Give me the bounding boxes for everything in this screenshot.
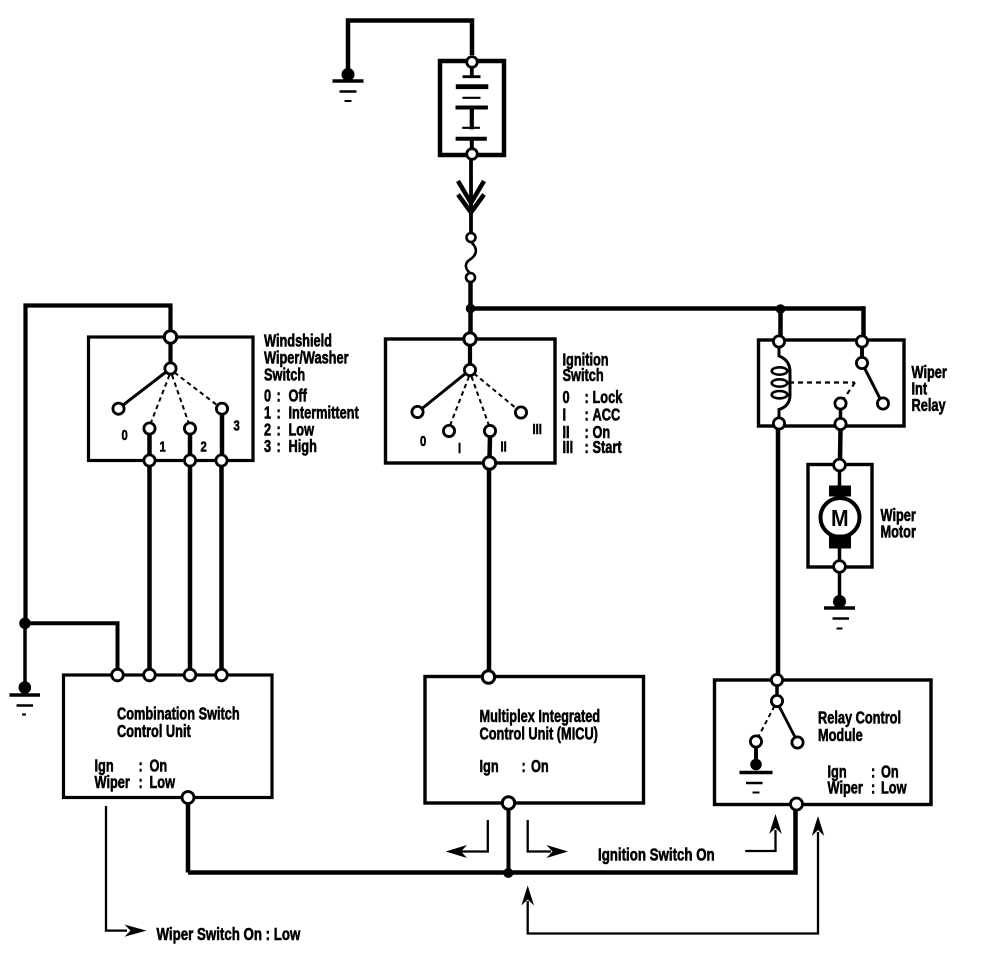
node relay branch junction (776, 304, 786, 314)
U3 switch pole contact (771, 695, 782, 706)
label M (831, 505, 849, 531)
arrow wiper switch on low (106, 806, 147, 937)
ground G2 (combination switch ground) (10, 681, 41, 714)
label SW2 position I (458, 439, 461, 456)
label relay control module (818, 709, 901, 728)
SW2 contact III (515, 407, 526, 418)
svg-text:M: M (831, 505, 849, 531)
svg-text:Relay: Relay (912, 396, 946, 415)
SW1 contact 1 (144, 423, 155, 434)
svg-text::: : (871, 779, 875, 798)
svg-text:Switch: Switch (563, 366, 604, 385)
U3 dashed throw (759, 706, 775, 737)
svg-text:Low: Low (150, 773, 176, 792)
pin SW1 bottom 3 (216, 455, 227, 466)
wire contact2 to pin (188, 434, 193, 455)
dashed actuator link (789, 381, 855, 383)
pin U2 bottom (502, 797, 514, 809)
wire relay coil to relay control module (776, 429, 781, 675)
svg-text:II: II (501, 438, 507, 455)
SW2 contact I (443, 425, 454, 436)
svg-text::: : (585, 438, 589, 457)
pin K1 bottom left (773, 418, 784, 429)
label multiplex integrated control unit (480, 707, 601, 726)
wire NC contact to ground (754, 747, 758, 761)
combination switch control unit U1 box (64, 675, 273, 798)
svg-text::: : (139, 773, 143, 792)
wire NC contact to pin (839, 409, 843, 419)
svg-text:On: On (531, 757, 549, 776)
ground G4 (module internal ground) (740, 759, 773, 793)
multiplex integrated control unit U2 box (425, 677, 644, 804)
pin U3 bottom (791, 798, 803, 810)
connector squiggle (466, 243, 476, 274)
SW1 wiper arm to position 0 (123, 372, 167, 406)
ignition switch SW2 box (386, 339, 556, 463)
U3 state Ign On (828, 763, 847, 782)
battery bottom terminal pin (467, 149, 478, 160)
motor brush bottom (829, 535, 851, 549)
SW2 contact II (484, 425, 495, 436)
svg-text:Ign: Ign (480, 757, 499, 776)
wire left feed to wiper switch (26, 306, 171, 624)
pin U1 top 1 (112, 669, 124, 681)
wiper int relay K1 box (759, 340, 905, 426)
SW1 contact 0 (113, 403, 124, 414)
wire junction to ground (23, 623, 27, 682)
svg-text:III: III (533, 420, 542, 437)
svg-text:3: 3 (264, 437, 271, 456)
wire SW1-2 to combination unit (188, 466, 193, 669)
wire K1 pin to switch common (860, 347, 864, 358)
SW1 contact 2 (184, 423, 195, 434)
pin U1 top 3 (184, 669, 196, 681)
svg-text:Motor: Motor (881, 523, 916, 542)
pin SW1 bottom 2 (184, 455, 195, 466)
wire U2 to bottom bus (507, 809, 511, 873)
SW2 dashed throw to II (472, 377, 490, 426)
label SW2 position 0 (420, 432, 426, 449)
wire SW1-3 to combination unit (219, 466, 224, 669)
ground G3 (wiper motor ground) (824, 595, 855, 629)
U3 switch NC contact (750, 736, 761, 747)
pin U2 top (482, 671, 494, 683)
SW2 wiper arm to position 0 (422, 374, 466, 410)
U1 state Wiper Low (95, 773, 130, 792)
relay coil K1 (772, 347, 790, 418)
svg-text:Wiper Switch On : Low: Wiper Switch On : Low (157, 925, 302, 944)
wiper/washer switch SW1 box (89, 337, 254, 461)
label ignition switch on (598, 846, 715, 865)
wire bus to relay coil (778, 309, 783, 338)
wire SW2 pole (468, 345, 472, 365)
svg-text:Wiper: Wiper (95, 773, 130, 792)
pin K1 bottom mid (835, 418, 846, 429)
label SW1 position 0 (122, 426, 128, 443)
wire contact1 to pin (147, 434, 152, 455)
U2 state Ign On (480, 757, 499, 776)
SW1 pole contact (165, 363, 176, 374)
svg-text:I: I (458, 439, 461, 456)
label SW1 position 1 (160, 438, 166, 455)
pin SW1 top (164, 331, 176, 343)
wiper motor M1 box (808, 465, 872, 568)
pin K1 top right (856, 336, 867, 347)
svg-text:2: 2 (201, 438, 207, 455)
wire connector to main bus (468, 283, 473, 309)
arrow loop under bottom bus (521, 816, 824, 934)
pin K1 top left (773, 336, 784, 347)
pin U1 top 4 (216, 669, 228, 681)
arrow into relay control module (745, 814, 782, 851)
K1 switch arm (865, 368, 881, 400)
wire pin to brush (838, 471, 842, 487)
arrow current flow left (446, 820, 488, 858)
battery BAT1 (440, 61, 504, 155)
svg-text:Control Unit: Control Unit (117, 722, 191, 741)
SW1 dashed throw to 2 (172, 375, 189, 423)
svg-text:Wiper: Wiper (828, 779, 863, 798)
pin U1 top 2 (144, 669, 156, 681)
wire U1 to bottom bus (186, 804, 191, 873)
SW2 contact 0 (412, 406, 423, 417)
label wiper switch on low (157, 925, 302, 944)
svg-text:1: 1 (160, 438, 166, 455)
K1 switch common contact (856, 357, 867, 368)
wire battery to connector (469, 160, 473, 233)
wire main power bus (471, 306, 865, 311)
K1 switch NC contact (835, 398, 846, 409)
svg-text:Low: Low (881, 779, 907, 798)
svg-text:Module: Module (818, 726, 863, 745)
node main feed junction (466, 304, 476, 314)
label SW1 position 3 (234, 417, 240, 434)
label combination switch control unit (117, 705, 240, 724)
U1 state Ign On (95, 757, 114, 776)
wire contact3 to pin (220, 415, 225, 456)
pin M1 bottom (834, 561, 846, 573)
wire SW1 pole (168, 343, 172, 363)
inline connector pins (467, 233, 476, 242)
motor M1 body (821, 498, 860, 537)
svg-text:Start: Start (593, 438, 622, 457)
wire brush to pin (838, 548, 842, 561)
relay control module U3 box (715, 680, 932, 805)
svg-text:Control Unit (MICU): Control Unit (MICU) (480, 724, 598, 743)
svg-text:3: 3 (234, 417, 240, 434)
pin SW1 bottom 1 (144, 455, 155, 466)
wire bus to ignition switch (468, 309, 473, 335)
pin SW2 top (464, 333, 476, 345)
fusible link chevrons (458, 181, 484, 213)
wire bus to relay switch (862, 309, 864, 339)
wire bottom bus (188, 810, 796, 873)
legend SW1 positions (264, 387, 271, 406)
SW1 dashed throw to 1 (151, 375, 170, 423)
pin M1 top (834, 459, 846, 471)
wire relay to wiper motor (838, 430, 843, 460)
wire SW2 to MICU (487, 469, 492, 672)
SW2 dashed throw to III (474, 374, 517, 410)
node left ground junction (19, 618, 31, 630)
K1 switch NO contact (877, 398, 888, 409)
label SW1 position 2 (201, 438, 207, 455)
svg-text:High: High (289, 437, 317, 456)
U3 switch arm (779, 706, 796, 738)
SW2 pole contact (464, 364, 475, 375)
arrow current flow right (528, 820, 568, 858)
pin SW2 bottom (483, 457, 495, 469)
node bottom bus junction (503, 868, 513, 878)
SW2 dashed throw to I (450, 377, 469, 426)
pin U3 top (771, 674, 782, 685)
pin U1 bottom (182, 792, 194, 804)
svg-text::: : (277, 437, 281, 456)
label SW2 position III (533, 420, 542, 437)
svg-text:III: III (563, 438, 574, 457)
legend SW2 positions (563, 388, 570, 407)
wire battery top to ground (348, 21, 472, 74)
label windshield wiper/washer switch (264, 332, 332, 351)
label ignition switch (563, 350, 609, 369)
U3 switch NO contact (792, 737, 803, 748)
wire SW1-1 to combination unit (147, 466, 152, 669)
U3 state Wiper Low (828, 779, 863, 798)
wire SW2 II to bottom pin (487, 437, 492, 458)
wire junction to combination unit (25, 623, 118, 670)
motor brush top (829, 486, 851, 497)
wire pin to switch pole (775, 686, 779, 696)
svg-text:0: 0 (122, 426, 128, 443)
battery top terminal pin (467, 57, 478, 68)
svg-text:Ignition Switch On: Ignition Switch On (598, 846, 715, 865)
SW1 contact 3 (216, 403, 227, 414)
label wiper int relay (912, 363, 947, 382)
label wiper motor (881, 506, 916, 525)
svg-text:Switch: Switch (264, 366, 305, 385)
SW1 dashed throw to 3 (175, 373, 218, 406)
label SW2 position II (501, 438, 507, 455)
svg-text:0: 0 (420, 432, 426, 449)
svg-text::: : (522, 757, 526, 776)
ground G1 (battery negative) (333, 68, 364, 101)
wire motor to ground (838, 573, 842, 597)
